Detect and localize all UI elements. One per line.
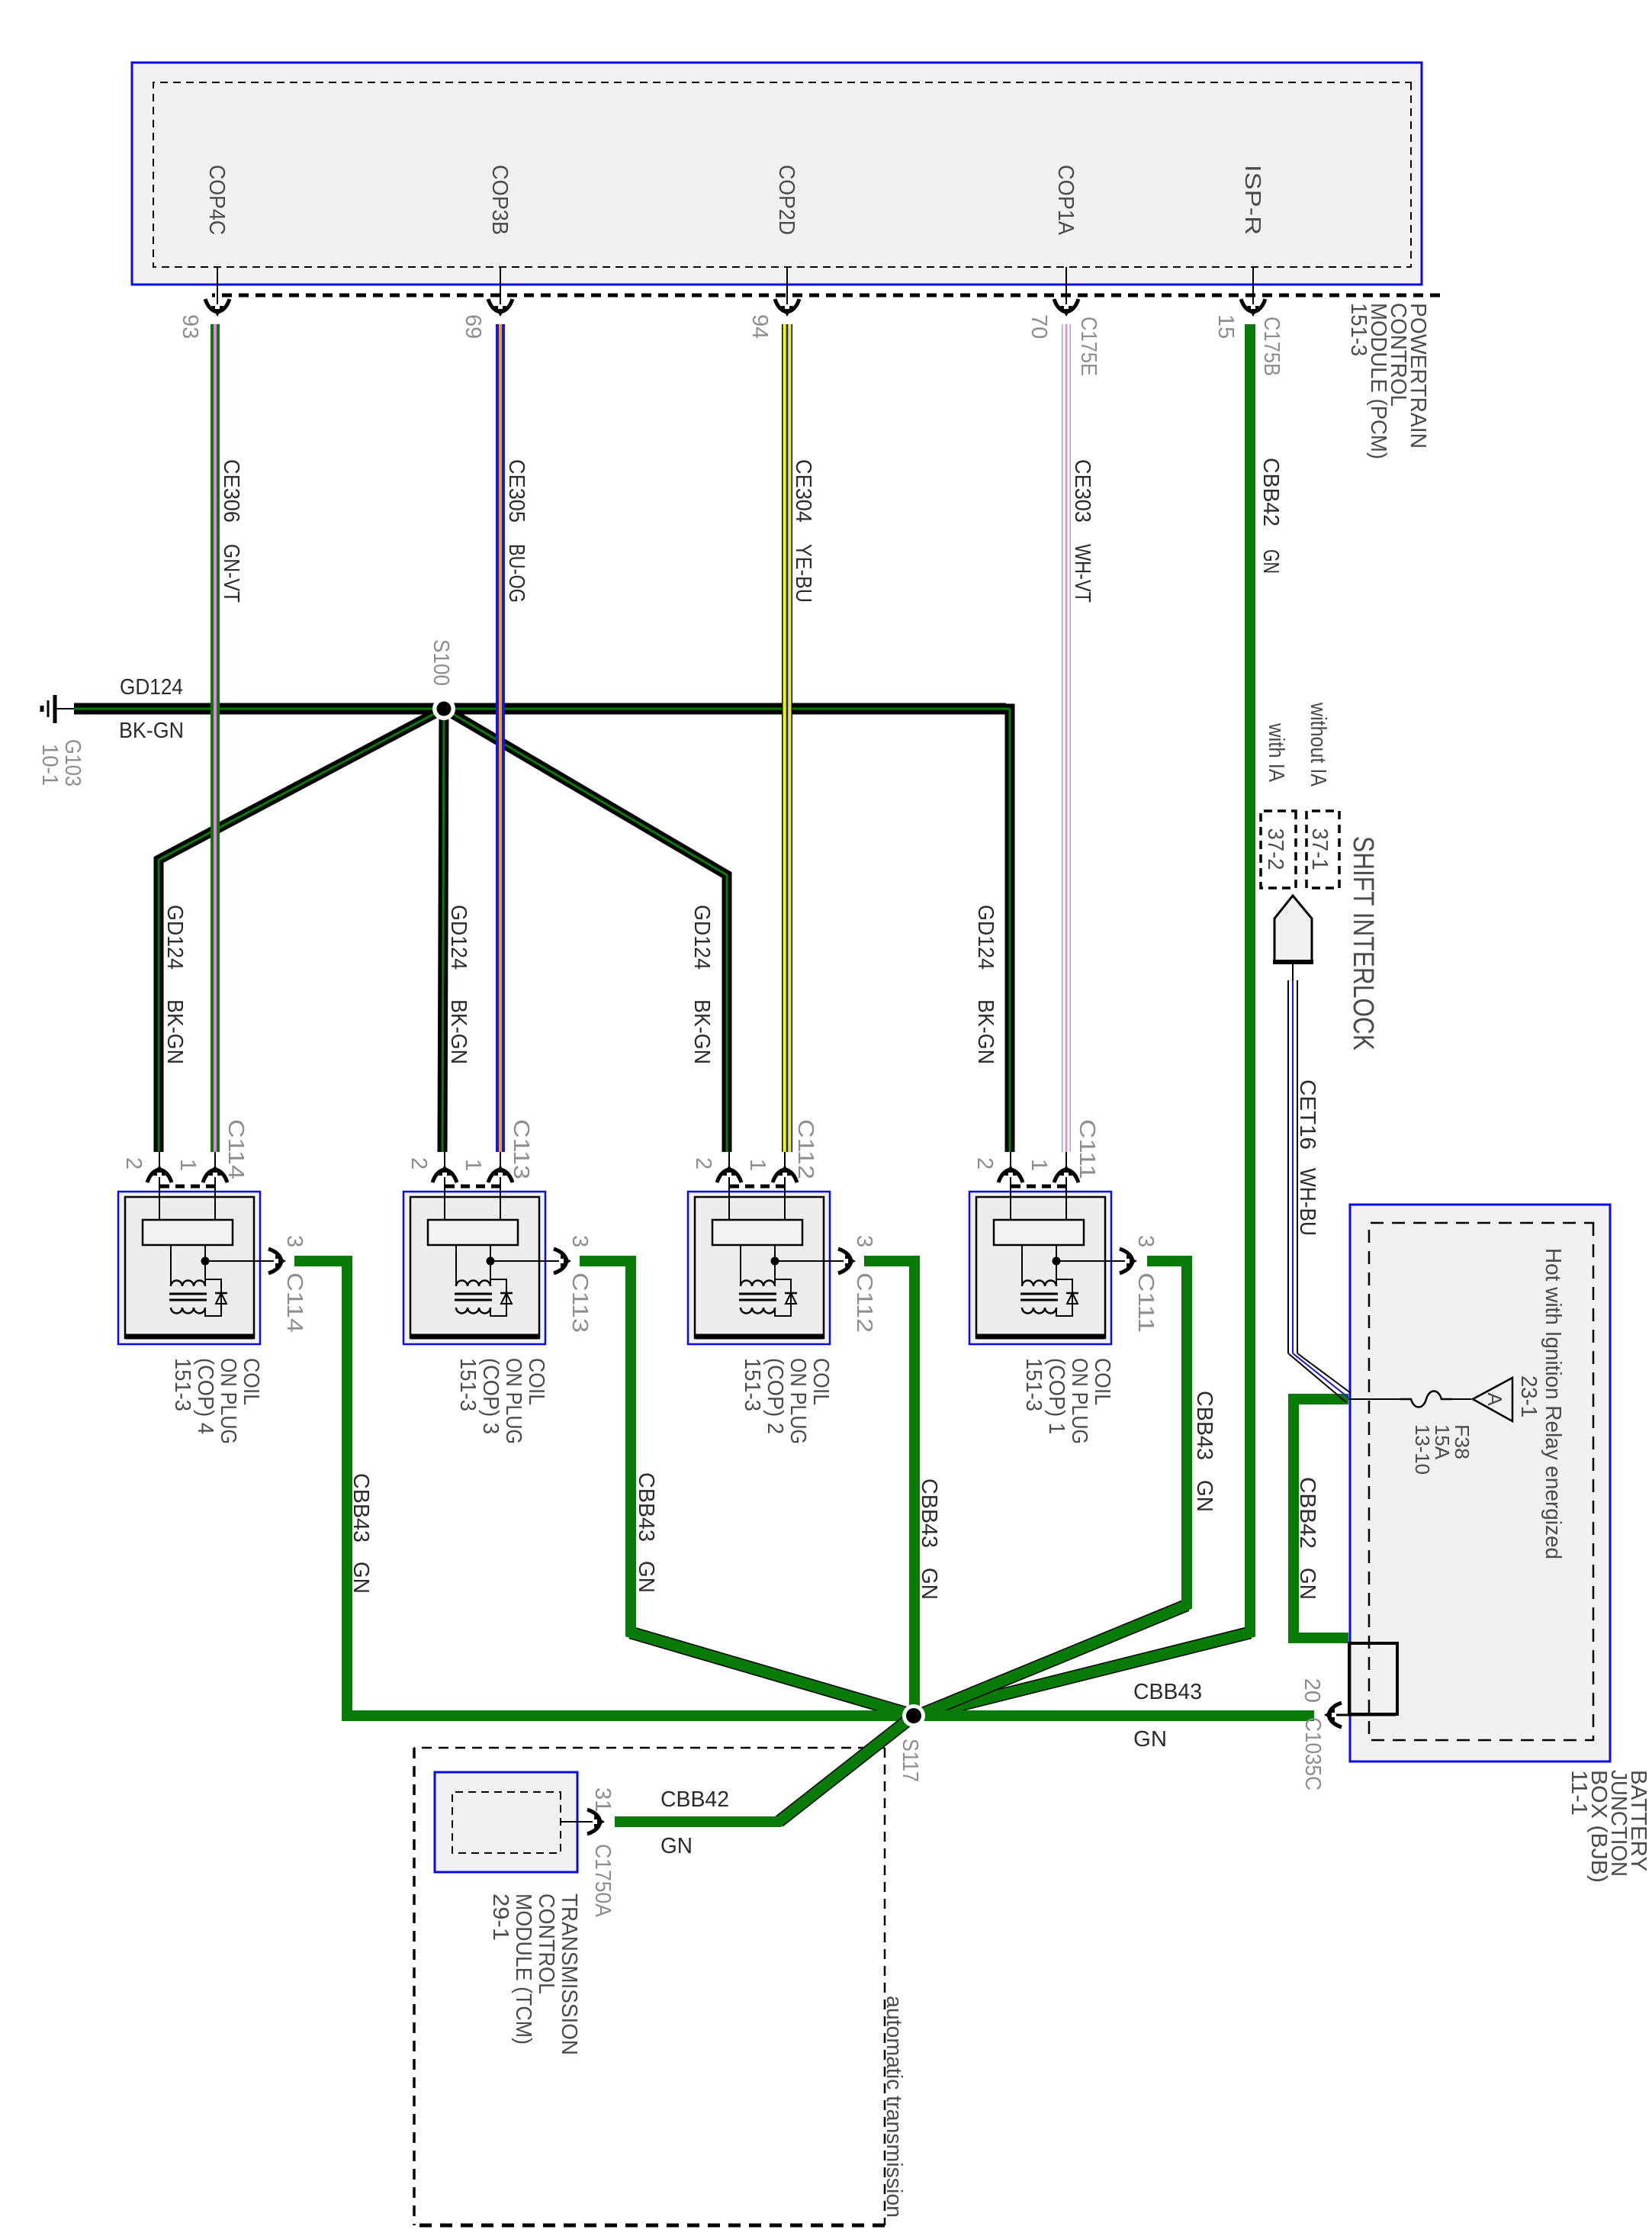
svg-text:GD124: GD124	[120, 675, 183, 700]
svg-text:151-3: 151-3	[455, 1358, 480, 1411]
svg-text:GD124BK-GN: GD124BK-GN	[973, 905, 998, 1064]
svg-text:37-2: 37-2	[1263, 828, 1287, 870]
svg-text:COIL: COIL	[1090, 1358, 1114, 1405]
svg-text:C114: C114	[282, 1272, 307, 1333]
svg-text:CE306GN-VT: CE306GN-VT	[219, 459, 243, 603]
svg-text:BK-GN: BK-GN	[119, 719, 184, 743]
svg-text:3: 3	[1133, 1235, 1158, 1247]
svg-text:1: 1	[461, 1159, 485, 1171]
svg-text:ISP-R: ISP-R	[1240, 165, 1265, 235]
svg-text:70: 70	[1027, 314, 1051, 339]
svg-text:(COP) 4: (COP) 4	[193, 1358, 217, 1434]
svg-text:2: 2	[407, 1157, 431, 1169]
svg-text:151-3: 151-3	[1346, 303, 1371, 356]
svg-text:GD124BK-GN: GD124BK-GN	[162, 905, 187, 1064]
svg-text:A: A	[1483, 1392, 1506, 1406]
svg-text:Hot with Ignition Relay energi: Hot with Ignition Relay energized	[1541, 1248, 1565, 1559]
svg-text:COP3B: COP3B	[487, 165, 512, 235]
svg-text:C111: C111	[1133, 1272, 1158, 1333]
svg-text:11-1: 11-1	[1567, 1770, 1591, 1816]
svg-text:(COP) 2: (COP) 2	[763, 1358, 787, 1434]
svg-text:3: 3	[567, 1235, 592, 1247]
svg-text:31: 31	[590, 1787, 615, 1812]
svg-text:69: 69	[461, 314, 485, 339]
svg-text:automatic transmission: automatic transmission	[882, 1996, 906, 2218]
svg-text:CET16WH-BU: CET16WH-BU	[1295, 1079, 1319, 1236]
svg-text:3: 3	[282, 1235, 307, 1247]
svg-text:C175B: C175B	[1259, 317, 1284, 376]
svg-text:1: 1	[745, 1159, 770, 1171]
svg-text:MODULE (TCM): MODULE (TCM)	[511, 1893, 535, 2045]
svg-text:COP4C: COP4C	[204, 165, 229, 235]
svg-text:COIL: COIL	[808, 1358, 833, 1405]
svg-text:CBB43GN: CBB43GN	[917, 1478, 941, 1600]
svg-text:151-3: 151-3	[170, 1358, 194, 1411]
svg-text:C113: C113	[567, 1272, 592, 1333]
svg-text:C175E: C175E	[1076, 317, 1101, 376]
svg-text:23-1: 23-1	[1516, 1375, 1541, 1417]
svg-text:CE304YE-BU: CE304YE-BU	[791, 459, 815, 603]
svg-text:3: 3	[852, 1235, 876, 1247]
svg-text:C1750A: C1750A	[590, 1844, 615, 1918]
svg-text:G103: G103	[60, 739, 85, 787]
svg-text:1: 1	[175, 1159, 200, 1171]
svg-text:CE303WH-VT: CE303WH-VT	[1070, 459, 1094, 603]
svg-text:CE305BU-OG: CE305BU-OG	[504, 459, 529, 603]
svg-text:CBB43GN: CBB43GN	[634, 1472, 658, 1593]
svg-text:20: 20	[1300, 1678, 1324, 1703]
svg-text:CBB42: CBB42	[660, 1787, 729, 1812]
svg-text:(COP) 3: (COP) 3	[478, 1358, 503, 1434]
svg-text:C111: C111	[1075, 1119, 1099, 1179]
svg-text:without IA: without IA	[1306, 702, 1330, 787]
svg-text:GN: GN	[660, 1834, 693, 1858]
svg-text:GD124BK-GN: GD124BK-GN	[446, 905, 471, 1064]
svg-text:C112: C112	[852, 1272, 876, 1333]
svg-text:C113: C113	[509, 1119, 533, 1179]
svg-text:2: 2	[972, 1157, 997, 1169]
svg-text:29-1: 29-1	[488, 1893, 513, 1941]
svg-text:COP1A: COP1A	[1053, 165, 1078, 236]
svg-text:S100: S100	[429, 639, 453, 686]
svg-text:TRANSMISSION: TRANSMISSION	[557, 1893, 581, 2055]
svg-text:ON PLUG: ON PLUG	[1067, 1358, 1091, 1444]
svg-text:S117: S117	[898, 1739, 922, 1782]
svg-text:C112: C112	[793, 1119, 818, 1179]
svg-text:(COP) 1: (COP) 1	[1044, 1358, 1069, 1434]
svg-text:2: 2	[121, 1157, 146, 1169]
svg-text:C114: C114	[223, 1119, 248, 1179]
svg-text:GN: GN	[1133, 1727, 1167, 1752]
svg-text:10-1: 10-1	[37, 744, 62, 786]
svg-text:151-3: 151-3	[740, 1358, 764, 1411]
svg-text:93: 93	[178, 314, 202, 339]
svg-text:GD124BK-GN: GD124BK-GN	[689, 905, 714, 1064]
svg-text:CBB43GN: CBB43GN	[349, 1473, 373, 1594]
svg-text:1: 1	[1027, 1159, 1051, 1171]
svg-text:CONTROL: CONTROL	[534, 1893, 558, 1994]
svg-text:15: 15	[1213, 314, 1238, 339]
svg-text:94: 94	[747, 314, 772, 339]
svg-text:ON PLUG: ON PLUG	[786, 1358, 810, 1444]
svg-text:CBB43GN: CBB43GN	[1192, 1391, 1217, 1512]
svg-text:COIL: COIL	[239, 1358, 263, 1405]
svg-text:ON PLUG: ON PLUG	[216, 1358, 240, 1444]
svg-text:COP2D: COP2D	[774, 165, 799, 235]
svg-text:ON PLUG: ON PLUG	[501, 1358, 525, 1444]
svg-text:C1035C: C1035C	[1300, 1717, 1325, 1790]
svg-text:CBB42GN: CBB42GN	[1295, 1477, 1319, 1600]
svg-text:CBB42GN: CBB42GN	[1258, 458, 1283, 574]
svg-text:2: 2	[691, 1157, 715, 1169]
svg-text:CBB43: CBB43	[1133, 1680, 1202, 1704]
svg-text:13-10: 13-10	[1411, 1424, 1434, 1475]
svg-text:151-3: 151-3	[1021, 1358, 1046, 1411]
svg-text:SHIFT INTERLOCK: SHIFT INTERLOCK	[1347, 836, 1379, 1050]
svg-text:COIL: COIL	[524, 1358, 548, 1405]
svg-text:with IA: with IA	[1264, 722, 1288, 782]
svg-text:37-1: 37-1	[1307, 828, 1332, 870]
